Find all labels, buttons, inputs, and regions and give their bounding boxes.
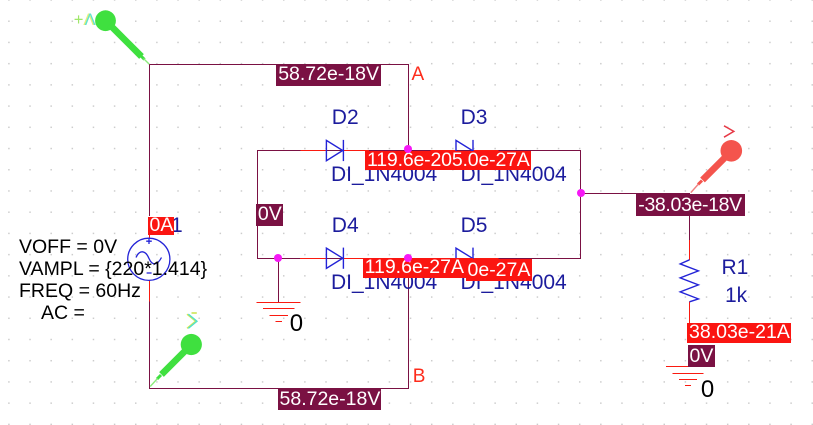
pin R1 bottom (red): [689, 302, 691, 324]
junction output node: [577, 189, 585, 197]
ground label 0 left: [290, 310, 303, 338]
pin D2 cathode (red): [344, 150, 369, 152]
ground label 0 right: [701, 376, 714, 404]
voltage value label 58.72e-18V (node A wire): [276, 64, 381, 86]
ground 0 left symbol: [257, 303, 301, 322]
text VOFF/VAMPL/FREQ/AC parameter block: [19, 236, 207, 325]
value DI_1N4004 of D4: [331, 271, 437, 295]
wire output vertical to R1: [689, 194, 691, 241]
wire node B rise: [408, 258, 410, 389]
wire top diode row: [257, 150, 581, 152]
wire left vertical lower (source bottom to corner B row): [149, 301, 151, 389]
wire bottom to node B: [149, 388, 409, 390]
designator 1 of V1: [171, 214, 183, 238]
pin D3 anode (red): [431, 150, 457, 152]
pin D4 anode (red): [300, 258, 327, 260]
voltage value label 0V (right ground): [688, 345, 716, 366]
diode D3 symbol: [456, 140, 473, 161]
junction node A (top): [404, 145, 412, 153]
current value label 0A (V1): [148, 217, 175, 235]
diode D5 symbol: [456, 248, 473, 269]
diode D4 symbol: [326, 248, 343, 269]
value DI_1N4004 of D3: [461, 163, 567, 187]
pin V1 top (red): [149, 235, 151, 239]
wire output horizontal: [581, 193, 691, 195]
value DI_1N4004 of D5: [461, 271, 567, 295]
probe V- marker (green, bottom left): [150, 313, 202, 387]
pin R1 top (red): [689, 240, 691, 260]
voltage source V1 symbol: [128, 238, 170, 280]
junction ground node (left): [274, 254, 282, 262]
current value label 0e-27A (D5): [466, 259, 532, 281]
label D4: [332, 214, 359, 238]
wire right rail of bridge: [580, 150, 582, 259]
label R1: [722, 256, 749, 280]
current value label 119.6e-21A (D2): [365, 151, 531, 170]
junction node B (bottom): [404, 254, 412, 262]
label D2: [332, 106, 359, 130]
voltage value label 58.72e-18V (node B wire): [278, 389, 382, 410]
pin D4 cathode (red): [344, 258, 369, 260]
probe V+ marker (green, top left): [95, 10, 149, 64]
wire node A drop: [408, 64, 410, 151]
pin D2 anode (red): [301, 150, 327, 152]
wire bottom diode row: [257, 258, 581, 260]
label D3: [461, 106, 488, 130]
pin V1 bottom (red): [149, 280, 151, 301]
node label A: [412, 64, 425, 86]
voltage value label 0V (left rail): [256, 204, 283, 226]
voltage value label -38.03e-18V (output node): [636, 194, 745, 216]
pin D5 anode (red): [431, 258, 457, 260]
svg-text:Λ: Λ: [85, 11, 96, 29]
node label B: [413, 366, 426, 388]
pin D5 cathode (red): [474, 258, 499, 260]
ground 0 right symbol: [666, 367, 710, 386]
diode D2 symbol: [326, 140, 343, 161]
resistor R1 symbol: [680, 260, 698, 302]
wire left vertical upper (source top): [149, 64, 151, 216]
marker text V+ (yellow/cyan overlay): [74, 11, 96, 29]
current value label 38.03e-21A (R1): [687, 323, 791, 343]
svg-text:+: +: [74, 11, 84, 29]
value 1k of R1: [725, 284, 747, 308]
value DI_1N4004 of D2: [331, 163, 437, 187]
wire left rail of bridge: [257, 150, 259, 259]
pin D3 cathode (red): [474, 150, 499, 152]
label D5: [461, 214, 488, 238]
wire ground stem left: [278, 258, 280, 303]
wire top from source top corner to node A: [149, 64, 409, 66]
probe V level marker (red, right): [691, 126, 742, 193]
current value label 119.6e-27A (D4): [363, 258, 473, 279]
